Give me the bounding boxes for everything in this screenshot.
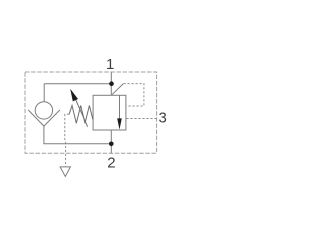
svg-text:1: 1 bbox=[106, 56, 114, 73]
svg-text:2: 2 bbox=[107, 154, 115, 171]
svg-text:3: 3 bbox=[159, 110, 167, 127]
